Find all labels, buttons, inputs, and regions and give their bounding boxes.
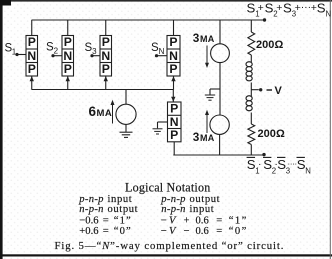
svg-text:200: 200 [256,39,274,51]
svg-text:N: N [169,49,178,63]
svg-text:200: 200 [258,128,276,140]
svg-text:MA: MA [200,34,215,44]
svg-text:V: V [275,85,283,97]
svg-text:N: N [305,167,311,176]
svg-text:·: · [258,158,262,170]
svg-text:Logical Notation: Logical Notation [125,181,210,195]
svg-text:“1”: “1” [229,216,248,227]
svg-text:−: − [161,226,167,237]
svg-text:0.6: 0.6 [196,226,209,237]
svg-text:2: 2 [54,47,59,56]
svg-text:=: = [103,216,109,227]
svg-text:+: + [276,2,282,14]
svg-text:3: 3 [193,130,200,144]
svg-text:+: + [184,216,190,227]
svg-text:n-p-n: n-p-n [161,204,185,215]
svg-text:P: P [170,128,178,142]
svg-text:N: N [63,49,72,63]
svg-text:P: P [102,35,110,49]
svg-text:N: N [170,115,179,129]
svg-text:MA: MA [200,133,215,143]
svg-text:N: N [27,49,36,63]
svg-text:Ω: Ω [276,128,285,140]
svg-text:P: P [28,35,36,49]
svg-text:P: P [64,35,72,49]
svg-text:S: S [317,1,326,16]
svg-text:N: N [101,49,110,63]
svg-text:“0”: “0” [229,226,248,237]
svg-text:P: P [169,35,177,49]
svg-text:output: output [108,204,139,215]
svg-text:6: 6 [89,104,97,119]
svg-text:−: − [161,216,167,227]
svg-text:P: P [28,62,36,76]
svg-text:“1”: “1” [114,216,132,227]
svg-text:−: − [184,226,190,237]
svg-text:“0”: “0” [114,226,132,237]
svg-text:S: S [283,1,292,16]
svg-text:P: P [170,102,178,116]
svg-text:+: + [258,2,264,14]
svg-text:0.6: 0.6 [196,216,209,227]
svg-text:····: ···· [287,159,296,169]
svg-text:N: N [159,47,165,56]
svg-text:−0.6: −0.6 [79,216,98,227]
svg-text:P: P [169,62,177,76]
svg-text:input: input [190,204,215,215]
svg-text:S: S [265,1,274,16]
svg-text:+0.6: +0.6 [79,226,98,237]
svg-text:S: S [247,1,256,16]
svg-text:N: N [326,10,332,19]
svg-text:=: = [216,226,222,237]
svg-text:Ω: Ω [275,39,284,51]
svg-text:=: = [103,226,109,237]
svg-text:···: ··· [301,1,312,13]
svg-text:3: 3 [193,31,200,45]
svg-text:P: P [102,62,110,76]
svg-text:MA: MA [97,108,113,119]
svg-text:=: = [216,216,222,227]
svg-text:n-p-n: n-p-n [79,204,103,215]
svg-text:Fig. 5—“N”-way complemented “o: Fig. 5—“N”-way complemented “or” circuit… [55,240,285,252]
svg-text:P: P [64,62,72,76]
